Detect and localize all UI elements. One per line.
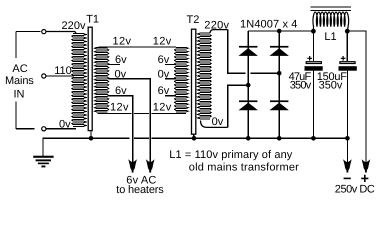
svg-text:Mains: Mains bbox=[5, 75, 34, 87]
wire 0v stub right bbox=[165, 78, 176, 80]
T2 secondary top lead bbox=[210, 30, 228, 33]
capacitor C1 top lead bbox=[312, 31, 314, 61]
diode triangle bbox=[239, 103, 258, 111]
wire 6v stub left bbox=[108, 63, 120, 65]
wire 220v tap bbox=[46, 32, 76, 34]
ground symbol bbox=[42, 138, 44, 156]
capacitor C2 plus bbox=[341, 56, 346, 61]
diode bar bbox=[270, 46, 288, 48]
wire 12v top link bbox=[99, 46, 176, 48]
bridge rail A bbox=[247, 31, 249, 138]
wire 0v tap to heater bbox=[108, 79, 150, 166]
junction dot bridge A mid bbox=[246, 83, 251, 88]
svg-text:6v: 6v bbox=[115, 85, 127, 97]
junction dot L1 left bbox=[311, 29, 316, 34]
junction dot T2 ground bbox=[192, 136, 197, 141]
svg-text:L1 = 110v primary of any: L1 = 110v primary of any bbox=[169, 149, 292, 161]
svg-text:T1: T1 bbox=[86, 13, 99, 25]
junction dot T1 ground bbox=[89, 136, 94, 141]
T2 core bbox=[192, 29, 196, 134]
capacitor C1 bottom lead bbox=[312, 71, 314, 139]
diode bar bbox=[239, 46, 257, 48]
svg-text:350v: 350v bbox=[290, 79, 312, 91]
svg-text:6v: 6v bbox=[158, 54, 170, 66]
diode triangle bbox=[270, 103, 289, 111]
label minus bbox=[344, 178, 351, 180]
capacitor C2 top lead bbox=[346, 31, 348, 61]
arrow minus output bbox=[343, 159, 352, 172]
bridge rail B bbox=[278, 31, 280, 138]
wire 12v bottom link (with hop-over breaks) bbox=[97, 113, 185, 115]
transformer T1 secondary winding bbox=[95, 47, 109, 112]
capacitor C1 bottom plate bbox=[305, 66, 323, 71]
T1 core ground stem bbox=[90, 131, 92, 139]
svg-text:6v: 6v bbox=[115, 54, 127, 66]
capacitor C2 bottom lead / minus output bbox=[346, 71, 348, 166]
capacitor C2 bottom plate bbox=[339, 66, 357, 71]
T2 secondary bottom lead bbox=[201, 121, 228, 128]
wire 220v feed to bridge bbox=[228, 30, 280, 74]
arrow heater right bbox=[146, 159, 155, 172]
terminal 0v bbox=[42, 127, 46, 131]
svg-text:12v: 12v bbox=[110, 102, 129, 114]
wire 6v stub right bbox=[165, 63, 176, 65]
capacitor C2 top plate bbox=[340, 62, 355, 64]
svg-text:1N4007 x 4: 1N4007 x 4 bbox=[240, 18, 297, 30]
svg-text:220v: 220v bbox=[62, 20, 87, 32]
diode triangle bbox=[270, 48, 289, 56]
wire 6v stub lower right bbox=[165, 95, 176, 97]
svg-text:T2: T2 bbox=[187, 14, 200, 26]
label plus bbox=[361, 175, 368, 182]
svg-text:12v: 12v bbox=[153, 102, 172, 114]
T2 core ground stem bbox=[193, 134, 195, 138]
T1 core bbox=[88, 27, 92, 130]
inductor L1 core bars bbox=[311, 7, 352, 8]
svg-text:110: 110 bbox=[54, 65, 71, 77]
junction dot rail A bottom bbox=[246, 136, 251, 141]
arrow heater left bbox=[128, 159, 137, 172]
capacitor C1 top plate bbox=[306, 62, 321, 64]
svg-text:250v DC: 250v DC bbox=[335, 184, 375, 196]
svg-text:220v: 220v bbox=[204, 19, 229, 31]
svg-text:0v: 0v bbox=[59, 118, 71, 130]
transformer T1 primary winding bbox=[72, 34, 86, 127]
svg-text:0v: 0v bbox=[115, 68, 127, 80]
svg-text:IN: IN bbox=[14, 89, 25, 101]
wire ground bus (with hop-over breaks) bbox=[42, 137, 347, 139]
junction dot C2 bottom bbox=[345, 136, 350, 141]
svg-text:old mains transformer: old mains transformer bbox=[189, 161, 299, 173]
diode bar bbox=[239, 100, 257, 102]
transformer T2 primary winding bbox=[175, 47, 189, 112]
svg-text:0v: 0v bbox=[158, 68, 170, 80]
wire 6v tap to heater bbox=[108, 96, 132, 166]
transformer T2 secondary winding bbox=[198, 33, 212, 119]
junction dot C1 bottom bbox=[311, 136, 316, 141]
wire top rail + output bbox=[248, 31, 366, 166]
svg-text:L1: L1 bbox=[324, 31, 336, 43]
junction dot rail B top bbox=[277, 29, 282, 34]
svg-text:12v: 12v bbox=[153, 36, 172, 48]
svg-text:to heaters: to heaters bbox=[116, 184, 164, 196]
capacitor C1 plus bbox=[307, 56, 312, 61]
AC mains bracket bbox=[16, 32, 41, 130]
terminal 220v bbox=[42, 30, 46, 34]
svg-text:12v: 12v bbox=[113, 36, 132, 48]
wire 110 tap bbox=[46, 75, 74, 77]
junction dot bridge B mid bbox=[277, 71, 282, 76]
junction dot L1 right bbox=[345, 29, 350, 34]
junction dot rail B bottom bbox=[277, 136, 282, 141]
terminal 110 bbox=[42, 74, 46, 78]
diode triangle bbox=[239, 48, 258, 56]
svg-text:0v: 0v bbox=[212, 116, 224, 128]
diode bar bbox=[270, 100, 288, 102]
arrow plus output bbox=[362, 159, 371, 172]
wire 0v tap bbox=[46, 128, 76, 130]
wire 0v feed to bridge bbox=[228, 85, 249, 127]
svg-text:AC: AC bbox=[12, 63, 27, 75]
svg-text:6v: 6v bbox=[158, 85, 170, 97]
svg-text:350v: 350v bbox=[319, 79, 343, 91]
inductor L1 coil bbox=[313, 12, 349, 31]
